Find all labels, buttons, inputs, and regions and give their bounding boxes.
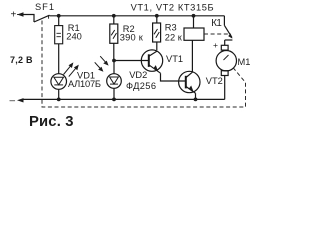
svg-text:+: + — [213, 40, 218, 50]
svg-text:240: 240 — [66, 32, 82, 42]
svg-text:SF1: SF1 — [35, 2, 54, 12]
svg-text:VT1: VT1 — [166, 54, 183, 64]
svg-text:7,2 В: 7,2 В — [10, 55, 33, 65]
svg-text:ФД256: ФД256 — [126, 81, 156, 91]
svg-text:VT2: VT2 — [206, 76, 223, 86]
svg-text:M1: M1 — [238, 57, 251, 67]
svg-text:390 к: 390 к — [120, 33, 144, 43]
svg-text:VD2: VD2 — [129, 70, 147, 80]
svg-text:Рис. 3: Рис. 3 — [29, 114, 74, 130]
svg-text:22 к: 22 к — [165, 33, 183, 43]
svg-text:АЛ107Б: АЛ107Б — [68, 79, 101, 89]
svg-text:+: + — [11, 10, 17, 21]
svg-text:VT1, VT2 КТ315Б: VT1, VT2 КТ315Б — [131, 3, 214, 13]
svg-text:К1: К1 — [211, 18, 222, 29]
svg-text:–: – — [10, 96, 16, 107]
svg-text:R3: R3 — [165, 23, 177, 33]
